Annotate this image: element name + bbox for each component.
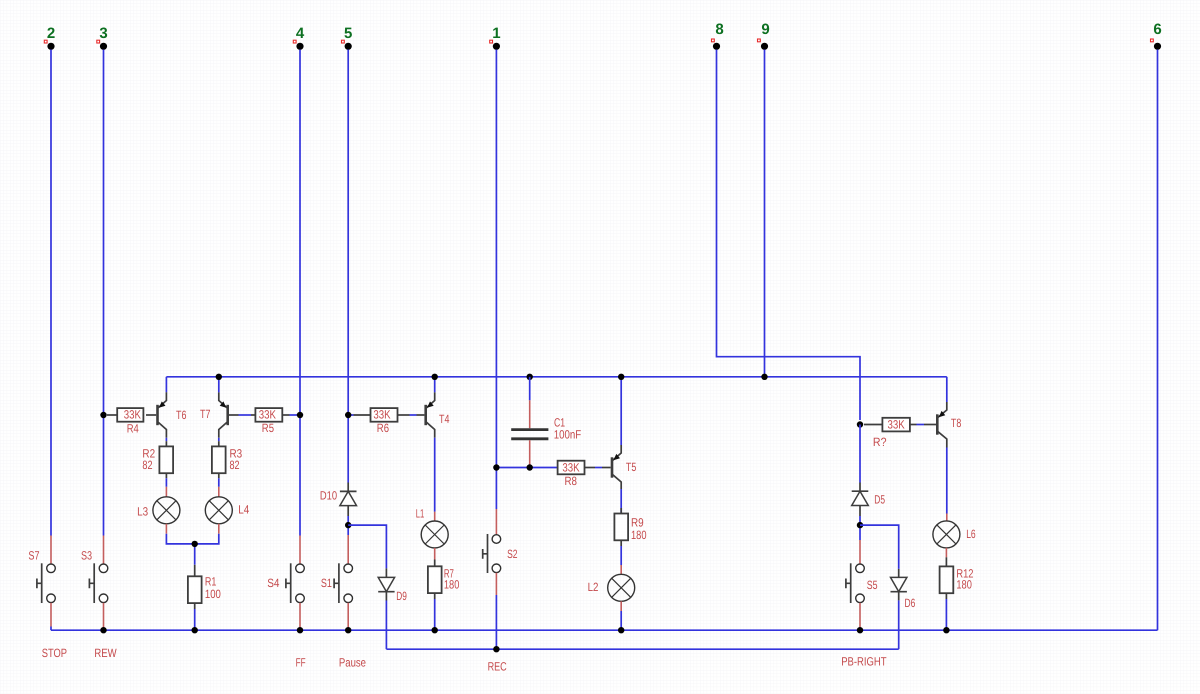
junction bus T5 emitter bbox=[618, 374, 624, 380]
svg-text:S4: S4 bbox=[267, 576, 279, 590]
svg-text:9: 9 bbox=[761, 21, 769, 38]
junction bus T7 emitter bbox=[216, 374, 222, 380]
wire T6 collector to R2 bbox=[165, 438, 167, 441]
lamp L2 bbox=[608, 565, 635, 611]
wire T8 emitter up bbox=[946, 377, 948, 402]
terminal 6 bbox=[1151, 21, 1162, 50]
resistor R6 bbox=[348, 408, 424, 435]
svg-text:T7: T7 bbox=[200, 407, 211, 421]
diode D6 bbox=[891, 569, 907, 601]
wire terminal8 to R? junction bbox=[717, 50, 861, 421]
terminal 8 bbox=[712, 21, 724, 50]
switch S1 bbox=[334, 535, 352, 628]
svg-text:82: 82 bbox=[142, 458, 152, 472]
svg-text:D9: D9 bbox=[396, 589, 407, 603]
junction REC line S2 bbox=[493, 646, 499, 652]
wire R3 to L4 bbox=[218, 478, 220, 487]
wire T4 emitter up bbox=[434, 377, 436, 393]
switch S7 bbox=[37, 536, 55, 627]
svg-text:R4: R4 bbox=[127, 421, 139, 435]
junction bus bottom S1 bbox=[345, 627, 351, 633]
wire junction to D9 bbox=[348, 525, 386, 568]
wire T8 collector to L6 bbox=[946, 448, 948, 514]
transistor T4 bbox=[424, 392, 434, 438]
wire terminal9 down bbox=[764, 50, 766, 377]
wire T7 collector to R3 bbox=[218, 438, 220, 441]
svg-text:R5: R5 bbox=[262, 421, 274, 435]
svg-text:100nF: 100nF bbox=[554, 427, 582, 441]
svg-text:REW: REW bbox=[94, 646, 117, 660]
transistor T6 bbox=[146, 392, 166, 438]
junction R6 terminal5 bbox=[345, 412, 351, 418]
wire R2 to L3 bbox=[165, 478, 167, 487]
wire D10 to S1 junction bbox=[347, 516, 349, 535]
svg-text:33K: 33K bbox=[562, 460, 579, 474]
svg-text:T8: T8 bbox=[951, 416, 962, 430]
svg-text:33K: 33K bbox=[259, 408, 276, 422]
wire junction to D6 bbox=[860, 525, 899, 569]
junction bus bottom L2 bbox=[618, 627, 624, 633]
svg-text:180: 180 bbox=[631, 528, 647, 542]
wire R9 to L2 bbox=[620, 546, 622, 565]
svg-text:2: 2 bbox=[47, 25, 55, 42]
svg-text:D5: D5 bbox=[874, 493, 885, 507]
svg-text:3: 3 bbox=[99, 25, 107, 42]
terminal 5 bbox=[342, 25, 353, 50]
svg-text:33K: 33K bbox=[888, 417, 905, 431]
wire T5 collector to R9 bbox=[620, 489, 622, 514]
wire R7 to bus bbox=[434, 599, 436, 630]
svg-text:R6: R6 bbox=[377, 421, 389, 435]
junction bus bottom R12 bbox=[943, 627, 949, 633]
resistor R8 bbox=[558, 460, 611, 488]
junction D10-S1 bbox=[345, 522, 351, 528]
svg-text:1: 1 bbox=[492, 25, 500, 42]
svg-text:180: 180 bbox=[444, 578, 460, 592]
terminal 2 bbox=[44, 25, 55, 50]
lamp L3 bbox=[153, 487, 180, 534]
wire R1 to bus bbox=[194, 609, 196, 630]
wire S2 bottom to REC line bbox=[495, 595, 497, 649]
wire terminal1 down bbox=[495, 50, 497, 510]
wire REC line bbox=[386, 648, 898, 650]
svg-text:D6: D6 bbox=[905, 596, 916, 610]
lamp L4 bbox=[205, 487, 232, 534]
svg-text:33K: 33K bbox=[124, 408, 141, 422]
diode D10 bbox=[340, 483, 357, 517]
wire T6 emitter up bbox=[165, 377, 167, 393]
svg-text:L3: L3 bbox=[137, 504, 148, 518]
terminal 3 bbox=[97, 25, 108, 50]
svg-text:33K: 33K bbox=[373, 408, 390, 422]
resistor R5 bbox=[255, 408, 300, 435]
svg-text:S5: S5 bbox=[867, 578, 878, 592]
resistor R2 bbox=[142, 441, 173, 478]
svg-text:L6: L6 bbox=[966, 527, 976, 541]
junction L3L4-R1 bbox=[192, 541, 198, 547]
resistor R9 bbox=[614, 508, 646, 546]
diode D9 bbox=[378, 568, 394, 600]
wire terminal2 down bbox=[50, 50, 52, 536]
junction C1 bottom bbox=[527, 464, 533, 470]
transistor T5 bbox=[611, 445, 622, 489]
terminal 4 bbox=[293, 25, 305, 50]
svg-text:100: 100 bbox=[205, 587, 221, 601]
wire bottom bus bbox=[51, 629, 1158, 631]
svg-text:6: 6 bbox=[1153, 21, 1161, 38]
svg-text:R?: R? bbox=[873, 435, 887, 449]
junction R?-D5 bbox=[857, 421, 863, 427]
resistor R7 bbox=[428, 560, 460, 600]
wire D9 to REC line bbox=[385, 601, 387, 650]
junction bus bottom S4 bbox=[297, 627, 303, 633]
svg-text:REC: REC bbox=[488, 660, 507, 674]
wire junction8 to D5 bbox=[859, 425, 861, 483]
junction D5-S5 bbox=[857, 522, 863, 528]
svg-text:L1: L1 bbox=[416, 507, 425, 521]
transistor T8 bbox=[936, 402, 947, 448]
svg-text:5: 5 bbox=[344, 25, 352, 42]
resistor R12 bbox=[940, 557, 974, 599]
resistor R3 bbox=[212, 441, 243, 478]
svg-text:180: 180 bbox=[956, 577, 972, 591]
diode D5 bbox=[852, 483, 869, 517]
lamp L6 bbox=[933, 514, 960, 558]
junction R5 terminal4 bbox=[297, 412, 303, 418]
switch S2 bbox=[483, 509, 501, 595]
wire terminal3 down bbox=[103, 50, 105, 536]
junction bus bottom R1 bbox=[192, 627, 198, 633]
resistor R? bbox=[864, 417, 936, 449]
switch S3 bbox=[89, 536, 107, 628]
wire D6 to REC line bbox=[898, 600, 900, 649]
junction bus bottom R7 bbox=[432, 627, 438, 633]
svg-text:FF: FF bbox=[296, 656, 306, 670]
svg-text:PB-RIGHT: PB-RIGHT bbox=[841, 655, 887, 669]
wire R12 to bus bbox=[945, 599, 947, 630]
svg-text:T4: T4 bbox=[439, 412, 450, 426]
svg-text:D10: D10 bbox=[320, 489, 337, 503]
svg-text:L2: L2 bbox=[588, 580, 599, 594]
terminal 9 bbox=[758, 21, 770, 50]
junction C1 top bbox=[527, 374, 533, 380]
svg-text:Pause: Pause bbox=[339, 656, 366, 670]
svg-text:R8: R8 bbox=[565, 474, 578, 488]
junction bus bottom S3 bbox=[100, 627, 106, 633]
switch S4 bbox=[286, 536, 304, 628]
wire terminal4 down bbox=[299, 50, 301, 536]
svg-text:T5: T5 bbox=[626, 460, 637, 474]
wire D5 to S5 junction bbox=[859, 516, 861, 540]
svg-text:82: 82 bbox=[230, 458, 240, 472]
resistor R1 bbox=[188, 565, 221, 609]
svg-text:4: 4 bbox=[296, 25, 305, 42]
junction bus terminal9 bbox=[761, 374, 767, 380]
svg-text:STOP: STOP bbox=[42, 646, 67, 660]
transistor T7 bbox=[219, 392, 256, 438]
wire S7 bottom corner bbox=[50, 627, 52, 631]
wire T4 collector to L1 bbox=[434, 438, 436, 512]
wire T7 emitter up bbox=[218, 377, 220, 393]
wire T5 emitter up bbox=[620, 377, 622, 445]
resistor R4 bbox=[107, 408, 143, 436]
wire node1 row bbox=[496, 467, 557, 469]
wire lamps L3 L4 to R1 bbox=[166, 534, 218, 565]
wire terminal5 down bbox=[347, 50, 349, 483]
svg-text:S3: S3 bbox=[81, 549, 92, 563]
junction R4 terminal3 bbox=[100, 412, 106, 418]
junction bus bottom S5 bbox=[857, 627, 863, 633]
svg-text:8: 8 bbox=[715, 21, 723, 38]
svg-text:S2: S2 bbox=[507, 547, 518, 561]
wire top bus bbox=[166, 376, 946, 378]
junction terminal1-R8 bbox=[493, 464, 499, 470]
svg-text:T6: T6 bbox=[176, 408, 187, 422]
svg-text:S7: S7 bbox=[28, 549, 39, 563]
wire terminal6 down bbox=[1157, 50, 1159, 631]
wire L2 to bus bbox=[620, 611, 622, 630]
junction bus T4 emitter bbox=[432, 374, 438, 380]
switch S5 bbox=[846, 540, 864, 628]
lamp L1 bbox=[421, 512, 448, 560]
svg-text:S1: S1 bbox=[321, 576, 332, 590]
terminal 1 bbox=[490, 25, 501, 50]
svg-text:L4: L4 bbox=[238, 503, 249, 517]
capacitor C1 bbox=[511, 377, 548, 468]
